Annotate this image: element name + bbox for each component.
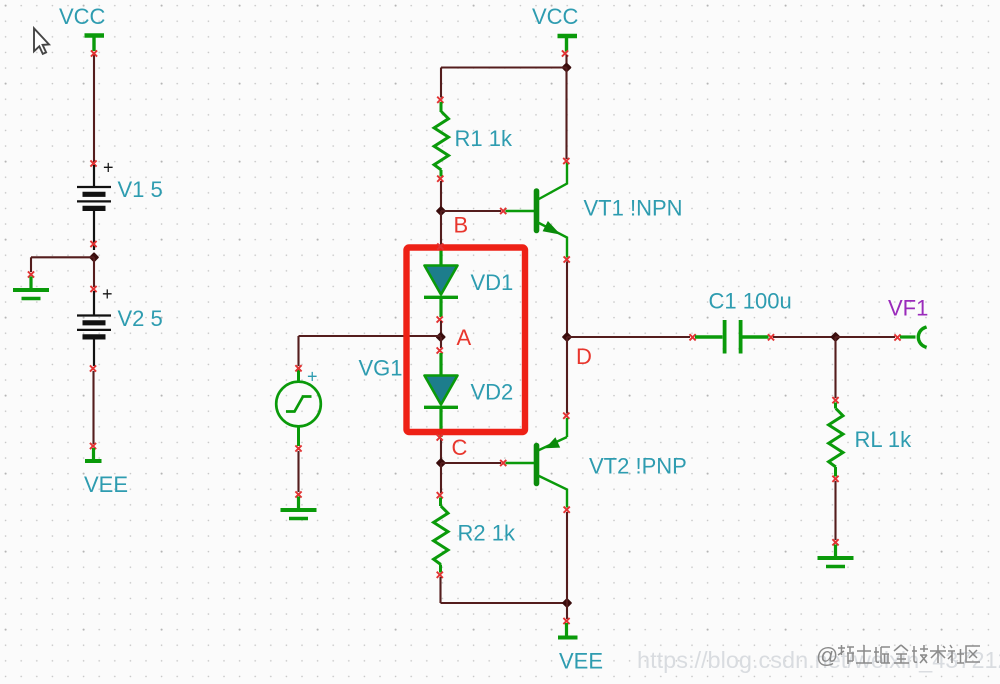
svg-text:VCC: VCC [532,4,579,29]
ground symbol (VG1) [281,497,317,519]
signal source VG1 [276,368,321,446]
transistor VT1 [506,162,568,258]
wire node C down to R2 [437,463,443,498]
svg-text:VEE: VEE [559,649,603,674]
junction node C [436,458,446,468]
svg-text:VD1: VD1 [471,270,514,295]
diode VD2 [424,353,458,437]
wire VD2 to node C [440,438,442,463]
battery V1 [77,165,111,250]
svg-text:+: + [307,367,318,387]
highlight rectangle around VD1/VD2 [407,248,526,433]
wire output junction down to RL [832,337,838,403]
capacitor C1 [695,320,769,354]
wire node D to capacitor C1 [567,334,696,340]
wire VG1 to ground [295,445,301,497]
svg-text:VCC: VCC [59,4,106,29]
wire R2 to bottom junction [437,572,567,603]
resistor RL [829,403,843,477]
wire VCC to V1 with pin markers [90,50,97,166]
svg-text:A: A [457,325,472,350]
wire junction to V2 [90,257,96,292]
wire node D down to VT2 emitter [563,337,569,419]
resistor R1 [434,102,448,177]
junction node A [435,332,445,342]
junction node bottom center [562,598,572,608]
svg-text:VT1 !NPN: VT1 !NPN [584,196,683,221]
wire VT2 collector to bottom junction [564,507,570,603]
svg-text:D: D [576,344,592,369]
svg-text:RL 1k: RL 1k [855,427,913,452]
junction node top center [561,62,571,72]
svg-text:C: C [452,435,468,460]
ground symbol (RL) [818,545,854,567]
svg-text:VT2 !PNP: VT2 !PNP [589,454,687,479]
wire C1 to output junction [768,334,836,340]
svg-text:C1 100u: C1 100u [709,289,792,314]
svg-text:+: + [103,158,114,178]
diode VD1 [424,249,458,317]
terminal VF1 [900,328,925,347]
wire VCC center down to top junction [562,50,568,67]
mouse cursor [34,28,49,54]
power symbol VEE (center) [558,623,578,638]
power symbol VCC (left) [85,36,105,52]
wire node C to VT2 base [441,460,506,466]
svg-text:VF1: VF1 [888,296,928,321]
community watermark text [816,643,980,668]
wire VD1 to node A [437,316,443,337]
svg-text:VEE: VEE [84,472,128,497]
transistor VT2 [506,418,568,508]
pin markers on highlight box edges [437,243,444,440]
svg-text:V1 5: V1 5 [118,177,163,202]
junction node D [562,332,572,342]
wire bottom junction to VEE [563,603,569,624]
junction node B [436,206,446,216]
wire output junction to terminal VF1 [836,334,901,340]
wire node B to VT1 base [441,208,506,214]
junction node between V1 and V2 [89,241,99,263]
power symbol VEE (left) [85,448,102,461]
svg-text:V2 5: V2 5 [118,306,163,331]
power symbol VCC (center) [558,36,578,52]
wire VT1 emitter to node D [564,256,570,337]
resistor R2 [434,498,448,573]
wire V2 to VEE with pin markers [90,365,96,449]
wire R1 to node B [437,176,443,211]
svg-text:R2 1k: R2 1k [458,521,516,546]
svg-text:R1 1k: R1 1k [455,126,513,151]
wire node B down into highlight box [440,211,442,245]
svg-text:B: B [454,213,469,238]
svg-text:@: @ [816,643,838,668]
wire RL to ground [832,476,838,546]
svg-text:VD2: VD2 [471,380,514,405]
svg-text:VG1: VG1 [359,356,403,381]
wire top junction to R1 [437,68,566,103]
battery V2 [77,291,111,366]
svg-text:+: + [102,284,113,304]
ground symbol (left) [13,277,49,299]
junction node output [830,332,840,342]
wire VT1 collector to top junction [563,68,569,165]
wire junction to ground (left) [28,257,94,277]
wire node A to VD2 [437,337,443,354]
wire VG1 to node A [295,336,441,371]
